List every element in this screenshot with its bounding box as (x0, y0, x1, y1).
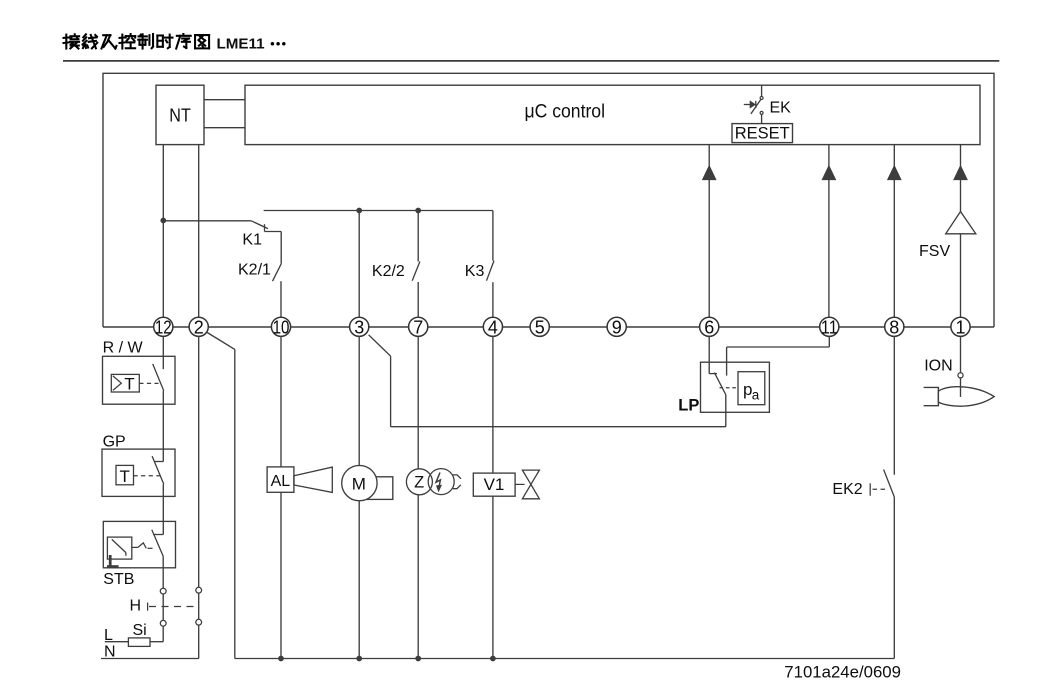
svg-text:4: 4 (488, 318, 498, 338)
svg-text:H: H (130, 598, 142, 615)
svg-text:K1: K1 (242, 231, 262, 248)
svg-text:STB: STB (103, 571, 134, 588)
svg-text:11: 11 (821, 318, 838, 338)
svg-text:5: 5 (535, 318, 545, 338)
svg-text:12: 12 (155, 318, 172, 338)
svg-text:10: 10 (273, 318, 290, 338)
svg-text:Si: Si (133, 622, 147, 639)
svg-text:RESET: RESET (735, 125, 790, 143)
svg-text:K2/1: K2/1 (238, 261, 271, 278)
svg-text:T: T (120, 467, 130, 486)
svg-text:7101a24e/0609: 7101a24e/0609 (784, 663, 901, 682)
svg-text:M: M (352, 475, 366, 494)
svg-text:EK: EK (770, 100, 792, 117)
svg-text:FSV: FSV (919, 243, 950, 260)
svg-text:8: 8 (889, 318, 899, 338)
svg-text:7: 7 (413, 318, 423, 338)
svg-text:EK2: EK2 (832, 481, 862, 498)
svg-text:ION: ION (924, 357, 952, 374)
svg-text:9: 9 (612, 318, 622, 338)
svg-text:6: 6 (704, 318, 714, 338)
svg-text:LP: LP (678, 397, 699, 415)
svg-text:AL: AL (271, 473, 291, 490)
svg-text:Z: Z (414, 474, 424, 492)
svg-text:NT: NT (169, 105, 191, 126)
svg-text:R / W: R / W (103, 340, 144, 357)
svg-text:V1: V1 (484, 475, 505, 494)
svg-text:LME11: LME11 (216, 36, 265, 53)
svg-text:K2/2: K2/2 (372, 263, 405, 280)
svg-text:GP: GP (103, 434, 126, 451)
svg-text:T: T (124, 375, 134, 394)
svg-text:1: 1 (955, 318, 965, 338)
svg-text:a: a (752, 388, 760, 403)
svg-text:2: 2 (194, 318, 204, 338)
svg-text:K3: K3 (465, 263, 485, 280)
svg-text:3: 3 (354, 318, 364, 338)
svg-text:μC control: μC control (525, 102, 606, 123)
